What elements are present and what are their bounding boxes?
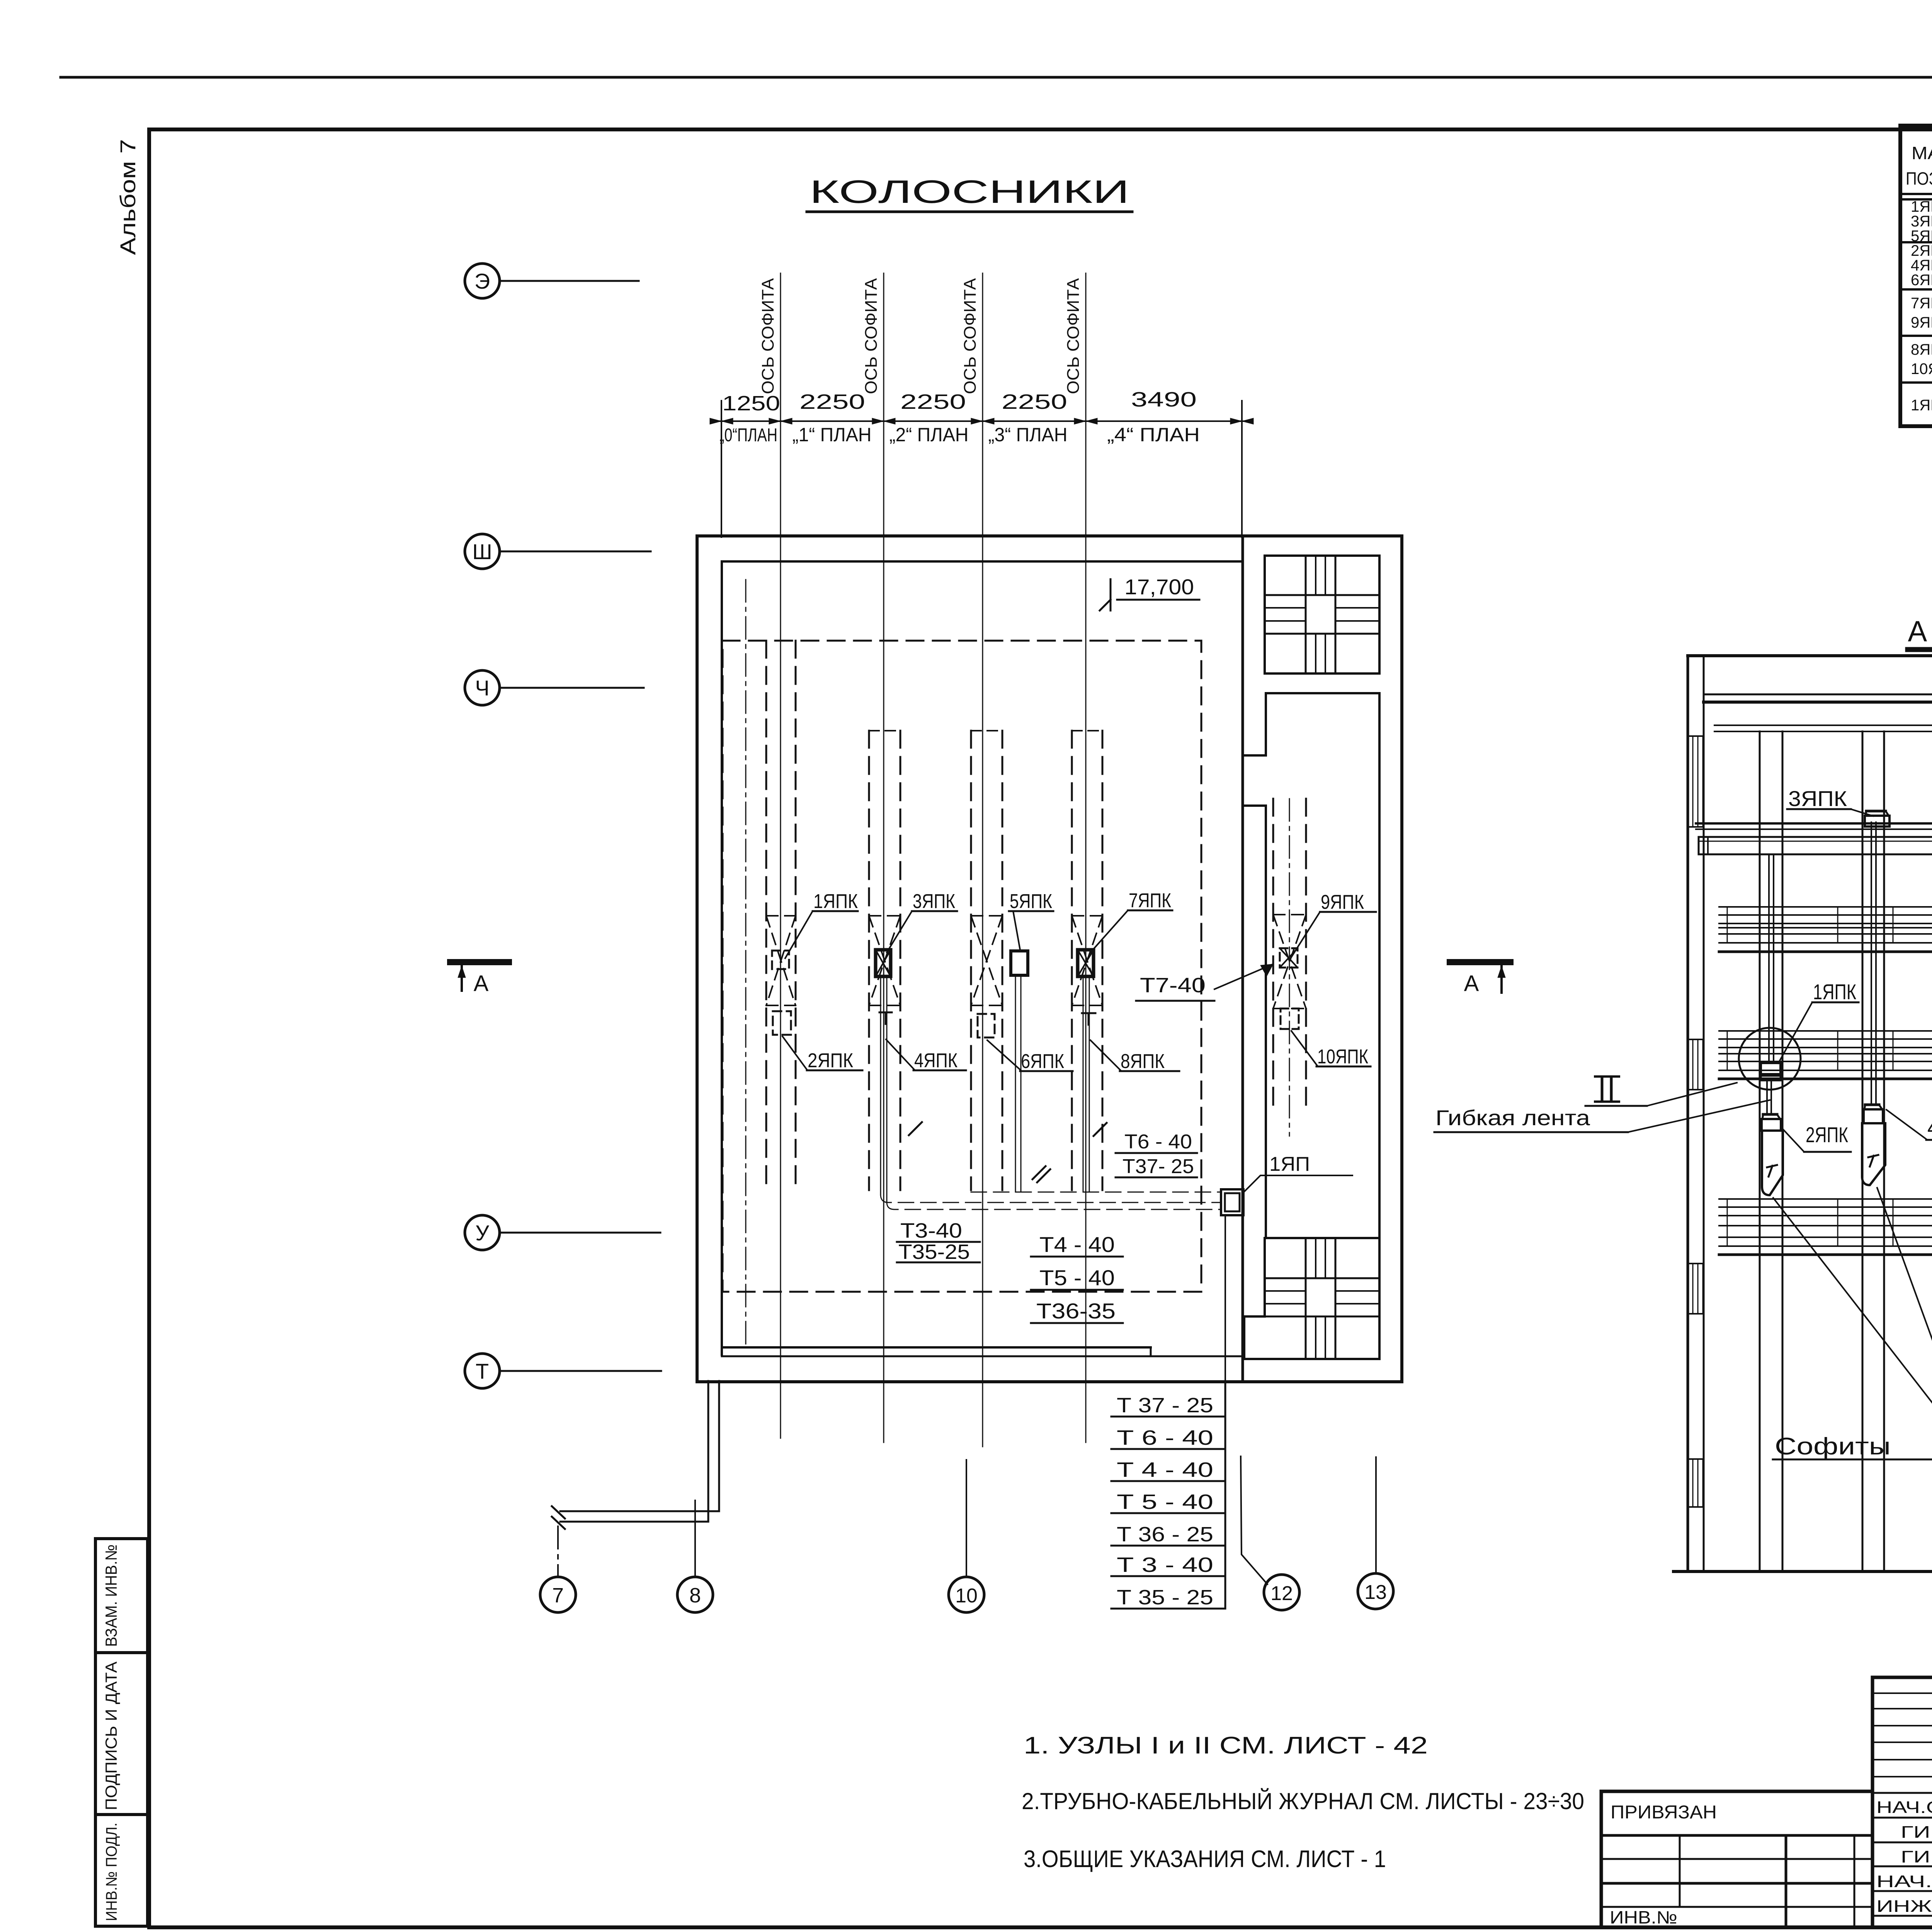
section column pair 2 <box>1862 731 1864 1571</box>
svg-text:6ЯПК: 6ЯПК <box>1021 1050 1064 1073</box>
signature row ПОЛУНЦЕВ <box>1901 1821 1932 1842</box>
svg-text:Т 6 - 40: Т 6 - 40 <box>1117 1426 1213 1449</box>
section column pair 1 <box>1759 731 1761 1571</box>
dimension text 3490 <box>1131 388 1197 411</box>
plan inner wall bottom band <box>722 1346 1151 1349</box>
axis circle Ч <box>465 670 644 705</box>
detail circle узел II <box>1739 1028 1801 1090</box>
svg-text:3490: 3490 <box>1131 388 1197 411</box>
junction box 3ЯПК solid <box>876 950 891 976</box>
rotated label ось софита 2 <box>862 278 881 394</box>
axis circle 10 <box>949 1460 984 1612</box>
pendant 2ЯПК head <box>1762 1119 1781 1131</box>
section roof top line <box>1688 654 1932 657</box>
spec table row 2 <box>1911 242 1932 289</box>
plan stage right dividing wall <box>1242 536 1244 1381</box>
note 3 <box>1024 1846 1386 1872</box>
side room walls right strip <box>1266 693 1379 1359</box>
dimension extension lines <box>721 401 722 537</box>
svg-text:1. УЗЛЫ I и II СМ. ЛИСТ -: 1. УЗЛЫ I и II СМ. ЛИСТ - 42 <box>1024 1732 1428 1759</box>
svg-text:6ЯПК: 6ЯПК <box>1911 272 1932 289</box>
label 3ЯПК <box>887 890 957 952</box>
label 10ЯПК <box>1291 1031 1371 1068</box>
svg-text:5ЯПК: 5ЯПК <box>1010 890 1052 913</box>
pull box 1ЯП <box>1221 1189 1243 1215</box>
rotated label ось софита 4 <box>1064 278 1083 394</box>
svg-text:8ЯПК,: 8ЯПК, <box>1911 341 1932 358</box>
label 5ЯПК <box>1009 890 1053 950</box>
grid beam колосники top chords <box>1696 822 1932 825</box>
svg-text:Т 5 - 40: Т 5 - 40 <box>1117 1490 1213 1514</box>
svg-text:8: 8 <box>689 1584 701 1607</box>
svg-text:13: 13 <box>1364 1581 1387 1604</box>
svg-text:КОЛОСНИКИ: КОЛОСНИКИ <box>810 173 1129 210</box>
signature table row lines <box>1872 1792 1932 1794</box>
junction box 5ЯПК solid <box>1011 951 1028 975</box>
svg-text:ОСЬ СОФИТА: ОСЬ СОФИТА <box>1064 278 1083 394</box>
svg-text:2250: 2250 <box>799 390 865 413</box>
cable table Т6-40 Т37-25 <box>1116 1131 1197 1178</box>
label Софиты with fan leaders <box>1773 1032 1932 1460</box>
label 4ЯПК <box>886 1039 966 1072</box>
svg-text:Т37- 25: Т37- 25 <box>1122 1155 1194 1178</box>
channel 3 T mark <box>879 1012 892 1014</box>
spec table header double separator <box>1900 193 1932 195</box>
svg-text:ИНЖЕН.: ИНЖЕН. <box>1876 1897 1932 1916</box>
conduit from 1ЯП to plan bottom <box>1225 1217 1226 1387</box>
cable table Т4-40 Т5-40 Т36-35 <box>1031 1232 1123 1323</box>
svg-text:Ч: Ч <box>475 676 489 700</box>
dimension line <box>711 420 1252 422</box>
left wall pilaster hatch 3 <box>1688 1263 1704 1264</box>
soffit channel 1 dashed <box>765 641 767 1191</box>
junction box 9ЯПК dashed <box>1280 948 1298 968</box>
axis circle 13 <box>1358 1457 1393 1609</box>
left stamp column box <box>95 1539 148 1926</box>
svg-text:10ЯПК: 10ЯПК <box>1317 1046 1368 1068</box>
conduit from box 5ЯПК down <box>1015 975 1016 1192</box>
svg-text:4ЯПК: 4ЯПК <box>914 1049 957 1072</box>
signature row ПЛОТНИКОВА <box>1901 1846 1932 1866</box>
pendant 4ЯПК head <box>1864 1109 1883 1123</box>
junction box 7ЯПК solid <box>1078 950 1094 976</box>
title block left grid columns <box>1679 1835 1681 1907</box>
section left wall inner <box>1703 656 1705 1571</box>
axis circle 7 <box>540 1526 576 1612</box>
stair block bottom-right box <box>1244 1238 1379 1359</box>
svg-text:Т: Т <box>476 1359 489 1383</box>
working gallery 1 grating <box>1719 1198 1932 1200</box>
svg-text:ПОЗИЦИЯ: ПОЗИЦИЯ <box>1906 168 1932 189</box>
svg-text:3ЯПК: 3ЯПК <box>1788 786 1847 811</box>
conduit slash marks <box>1032 1166 1050 1182</box>
signature row ЗУЙКОВ <box>1876 1797 1932 1817</box>
svg-text:ГИП: ГИП <box>1901 1847 1932 1866</box>
svg-text:МАРКА: МАРКА <box>1912 143 1932 163</box>
label 1ЯП <box>1244 1153 1352 1192</box>
section label 1ЯПК <box>1778 980 1859 1063</box>
axis circle Ш <box>465 534 651 569</box>
svg-text:ПОДПИСЬ И ДАТА: ПОДПИСЬ И ДАТА <box>102 1662 120 1810</box>
section label 2ЯПК <box>1782 1122 1851 1152</box>
dimension arrowheads <box>710 418 1253 424</box>
svg-text:2ЯПК: 2ЯПК <box>1806 1122 1848 1147</box>
svg-text:Т6 - 40: Т6 - 40 <box>1124 1131 1192 1153</box>
junction box 1ЯПК dashed <box>772 951 789 969</box>
channel 7 T mark <box>1082 1012 1095 1014</box>
svg-text:Т 36 - 25: Т 36 - 25 <box>1117 1523 1213 1546</box>
plan outer wall rectangle <box>697 536 1402 1382</box>
section left wall outer <box>1687 656 1689 1571</box>
svg-text:4ЯПК: 4ЯПК <box>1927 1115 1932 1140</box>
junction box 10ЯПК dashed <box>1281 1009 1299 1029</box>
soffit channel 7 dashed <box>1071 731 1073 1190</box>
conduit from box 3ЯПК down <box>880 976 881 1195</box>
title block left part frame <box>1601 1791 1872 1927</box>
spec table row 5 <box>1911 393 1932 417</box>
stair block top-right horizontal flight lines <box>1265 594 1379 596</box>
axis circle 8 <box>677 1500 713 1612</box>
pendant 4ЯПК bullet <box>1862 1123 1885 1185</box>
section label 4ЯПК <box>1886 1110 1932 1140</box>
soffit channel 9 funnel <box>1273 915 1306 1009</box>
stage floor line <box>1673 1570 1932 1573</box>
svg-text:Т 35 - 25: Т 35 - 25 <box>1117 1586 1213 1609</box>
svg-text:ОСЬ СОФИТА: ОСЬ СОФИТА <box>961 278 980 394</box>
svg-text:ИНВ.№ ПОДЛ.: ИНВ.№ ПОДЛ. <box>103 1823 120 1921</box>
svg-text:ГИП: ГИП <box>1901 1823 1932 1842</box>
label 2 ПЛАН <box>889 424 969 446</box>
title КОЛОСНИКИ <box>807 173 1132 212</box>
plan inner wall top line <box>722 560 1243 563</box>
svg-text:Э: Э <box>474 269 490 293</box>
label 3 ПЛАН <box>988 424 1068 446</box>
svg-text:Софиты: Софиты <box>1775 1433 1891 1460</box>
soffit channel 9 dashed right strip <box>1272 799 1274 1107</box>
label 6ЯПК <box>987 1040 1073 1073</box>
working gallery 2 grating <box>1719 1030 1932 1032</box>
section mark A right <box>1450 962 1510 996</box>
label 4 ПЛАН <box>1107 424 1200 446</box>
conduit riser below plan to axis 7 <box>707 1381 709 1522</box>
grid beam колосники band <box>1699 837 1932 854</box>
axis circle Э <box>465 264 639 298</box>
svg-text:Т 37 - 25: Т 37 - 25 <box>1117 1394 1213 1417</box>
spec table row 1 <box>1911 198 1932 245</box>
svg-text:Т3-40: Т3-40 <box>900 1219 962 1242</box>
left wall pilaster hatch 2 <box>1688 1039 1704 1040</box>
signature row ВОДНЕВА <box>1876 1896 1932 1916</box>
spec table row 3 <box>1911 295 1932 335</box>
svg-text:„1“ ПЛАН: „1“ ПЛАН <box>793 424 872 446</box>
axis circle Т <box>465 1354 661 1388</box>
svg-text:1ЯПК: 1ЯПК <box>1813 980 1856 1004</box>
svg-text:7: 7 <box>552 1584 564 1607</box>
svg-text:А: А <box>1464 971 1479 996</box>
label 9ЯПК <box>1291 891 1376 957</box>
working gallery 3 grating <box>1719 906 1932 908</box>
svg-text:1ЯП: 1ЯП <box>1911 397 1932 414</box>
rotated label ось софита 1 <box>759 278 777 394</box>
svg-text:НАЧ. ГР.: НАЧ. ГР. <box>1876 1872 1932 1891</box>
svg-text:8ЯПК: 8ЯПК <box>1121 1050 1165 1073</box>
box 3ЯПК on grid beam <box>1865 816 1889 827</box>
svg-text:Т4 - 40: Т4 - 40 <box>1039 1232 1115 1257</box>
label 1ЯПК <box>785 890 858 958</box>
left wall pilaster hatch 4 <box>1688 1458 1704 1460</box>
soffit channel 5 dashed <box>970 731 972 1190</box>
stair block top-right box <box>1265 556 1379 673</box>
svg-text:У: У <box>475 1221 489 1245</box>
svg-text:7ЯПК: 7ЯПК <box>1129 889 1171 912</box>
svg-text:А: А <box>474 971 489 996</box>
section mark A left <box>450 962 509 996</box>
signature table frame <box>1872 1677 1932 1927</box>
horizontal conduit run to 1ЯП <box>881 1195 1221 1202</box>
label 8ЯПК <box>1090 1040 1179 1073</box>
svg-text:2.ТРУБНО-КАБЕЛЬНЫЙ ЖУРНАЛ СМ: 2.ТРУБНО-КАБЕЛЬНЫЙ ЖУРНАЛ СМ. ЛИСТЫ - 23… <box>1022 1788 1584 1814</box>
svg-text:12: 12 <box>1270 1582 1293 1605</box>
spec table frame <box>1900 126 1932 426</box>
svg-text:Т36-35: Т36-35 <box>1036 1299 1116 1323</box>
label 1 ПЛАН <box>793 424 872 446</box>
svg-text:2ЯПК: 2ЯПК <box>808 1049 853 1072</box>
section under-roof band <box>1714 724 1932 726</box>
svg-text:1250: 1250 <box>722 392 780 415</box>
section label 3ЯПК <box>1787 786 1873 816</box>
svg-text:1ЯПК: 1ЯПК <box>813 890 858 913</box>
svg-text:ОСЬ СОФИТА: ОСЬ СОФИТА <box>862 278 881 394</box>
note 2 <box>1022 1788 1584 1814</box>
label Гибкая лента <box>1434 1100 1770 1132</box>
junction box 2ЯПК dashed <box>773 1011 791 1035</box>
axis circle У <box>465 1215 660 1250</box>
cable label Т7-40 with arrow <box>1136 964 1273 1001</box>
terminal box 1ЯПК in section <box>1761 1063 1781 1074</box>
soffit axis vertical grid lines <box>780 273 781 1438</box>
conduit from box 7ЯПК down <box>1083 976 1084 1192</box>
svg-text:НАЧ.ОТД: НАЧ.ОТД <box>1876 1798 1932 1817</box>
svg-text:3ЯПК: 3ЯПК <box>913 890 955 913</box>
svg-text:ВЗАМ. ИНВ.№: ВЗАМ. ИНВ.№ <box>102 1544 120 1647</box>
svg-text:Т7-40: Т7-40 <box>1140 974 1206 997</box>
soffit channel 3 dashed <box>868 731 870 1190</box>
signature row ГОСТИНЦЕВА <box>1876 1871 1932 1891</box>
pendant 2ЯПК bullet <box>1762 1131 1783 1195</box>
title block left grid rows <box>1601 1858 1872 1860</box>
svg-text:2250: 2250 <box>900 390 966 413</box>
stem between 1ЯПК and 2ЯПК <box>1766 1080 1768 1114</box>
spec table row lines <box>1900 241 1932 243</box>
dimension text 2250 b <box>900 390 966 413</box>
svg-text:„0“ПЛАН: „0“ПЛАН <box>719 425 777 446</box>
svg-text:9ЯПК: 9ЯПК <box>1911 314 1932 331</box>
label 7ЯПК <box>1090 889 1172 952</box>
page outer border top rule <box>61 76 1932 79</box>
cable list under plan <box>1111 1382 1225 1609</box>
large dashed perimeter of stage zone <box>723 641 1201 1292</box>
svg-text:2250: 2250 <box>1002 390 1067 413</box>
svg-text:Т 4 - 40: Т 4 - 40 <box>1117 1458 1213 1481</box>
title block ПРИВЯЗАН row <box>1601 1834 1872 1837</box>
signature table upper empty rows <box>1872 1692 1932 1694</box>
stair block top-right vertical flight lines <box>1305 556 1307 673</box>
svg-text:„2“ ПЛАН: „2“ ПЛАН <box>889 424 969 446</box>
svg-text:Т 3 - 40: Т 3 - 40 <box>1117 1553 1213 1577</box>
svg-text:„4“ ПЛАН: „4“ ПЛАН <box>1107 424 1200 446</box>
dimension text 2250 c <box>1002 390 1067 413</box>
axis circle 12 <box>1241 1456 1299 1610</box>
svg-text:ПРИВЯЗАН: ПРИВЯЗАН <box>1611 1802 1717 1823</box>
svg-text:„3“ ПЛАН: „3“ ПЛАН <box>988 424 1068 446</box>
rotated label ось софита 3 <box>961 278 980 394</box>
svg-text:Гибкая лента: Гибкая лента <box>1435 1105 1590 1130</box>
note 1 <box>1024 1732 1428 1759</box>
svg-text:10: 10 <box>955 1585 978 1607</box>
soffit channel 5 funnel <box>971 916 1002 1005</box>
plan inner wall left line <box>721 561 723 1355</box>
wall axis dash-dot line left <box>745 580 747 1345</box>
junction box 6ЯПК dashed <box>978 1014 995 1037</box>
svg-text:А — А: А — А <box>1908 615 1932 648</box>
section title А-А <box>1908 615 1932 650</box>
soffit channel 9 centerline <box>1289 799 1290 1136</box>
svg-text:7ЯПК,: 7ЯПК, <box>1911 295 1932 312</box>
svg-text:17,700: 17,700 <box>1124 575 1194 599</box>
soffit channel 3 funnel <box>869 916 900 1005</box>
svg-text:10ЯПК: 10ЯПК <box>1911 361 1932 378</box>
svg-text:9ЯПК: 9ЯПК <box>1321 891 1364 913</box>
svg-text:1ЯП: 1ЯП <box>1269 1153 1310 1175</box>
svg-text:ИНВ.№: ИНВ.№ <box>1610 1907 1677 1927</box>
label 0 ПЛАН <box>719 425 777 446</box>
svg-text:Ш: Ш <box>472 539 492 564</box>
section roof slab lines <box>1704 694 1932 696</box>
hanger cable for 1ЯПК 2ЯПК <box>1768 854 1770 1063</box>
hanger cable for 3ЯПК 4ЯПК <box>1871 822 1872 1105</box>
cable table Т3-40 Т35-25 <box>897 1219 980 1264</box>
label 2ЯПК <box>782 1036 862 1072</box>
left wall pilaster hatch 1 <box>1688 735 1704 737</box>
svg-text:3.ОБЩИЕ УКАЗАНИЯ СМ. ЛИСТ: 3.ОБЩИЕ УКАЗАНИЯ СМ. ЛИСТ - 1 <box>1024 1846 1386 1872</box>
spec table row 4 <box>1911 341 1932 382</box>
node label II <box>1585 1077 1737 1106</box>
svg-text:Т35-25: Т35-25 <box>898 1240 970 1264</box>
svg-text:Т5 - 40: Т5 - 40 <box>1039 1265 1115 1290</box>
soffit channel 7 funnel <box>1072 916 1102 1005</box>
svg-text:Альбом 7: Альбом 7 <box>116 139 140 255</box>
dimension text 1250 <box>722 392 780 415</box>
dimension text 2250 a <box>799 390 865 413</box>
soffit channel 1 funnel <box>766 916 796 1005</box>
svg-text:ОСЬ СОФИТА: ОСЬ СОФИТА <box>759 278 777 394</box>
stair block bottom-right flight lines <box>1305 1238 1307 1359</box>
